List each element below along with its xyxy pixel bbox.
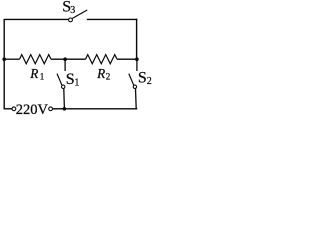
- svg-text:1: 1: [74, 77, 79, 88]
- svg-text:220V: 220V: [16, 102, 49, 118]
- svg-text:3: 3: [70, 5, 75, 16]
- wire: left vertical branch: [3, 19, 5, 108]
- wire: bottom left stub to supply terminal: [4, 108, 13, 110]
- wire: middle left lead: [4, 58, 19, 60]
- svg-text:S: S: [66, 71, 75, 88]
- wire: top right segment: [87, 18, 138, 20]
- wire: top left segment: [4, 18, 69, 20]
- wire: middle segment between R1 and R2: [51, 58, 86, 60]
- resistor R2: [86, 55, 118, 64]
- node: junction of S2 branch on middle wire: [135, 57, 139, 61]
- terminal: 220V supply left terminal: [12, 107, 16, 111]
- svg-text:S: S: [138, 70, 147, 87]
- switch S1: [57, 59, 65, 109]
- switch S3: [69, 10, 88, 22]
- svg-text:2: 2: [147, 76, 152, 87]
- wire: bottom right segment: [64, 108, 137, 110]
- svg-text:2: 2: [106, 72, 111, 82]
- resistor R1: [20, 55, 52, 64]
- wire: bottom segment from terminal to S1 junction: [53, 108, 65, 110]
- switch S2: [129, 59, 137, 109]
- wire: middle right lead: [117, 58, 137, 60]
- terminal: 220V supply right terminal: [49, 107, 53, 111]
- node: junction of S1 branch on bottom wire: [63, 107, 67, 111]
- svg-text:R: R: [96, 66, 105, 81]
- svg-text:R: R: [29, 66, 38, 81]
- node: left middle junction: [2, 57, 6, 61]
- wire: right vertical upper segment: [136, 19, 138, 60]
- node: junction of S1 branch on middle wire: [63, 57, 67, 61]
- svg-text:1: 1: [40, 71, 45, 81]
